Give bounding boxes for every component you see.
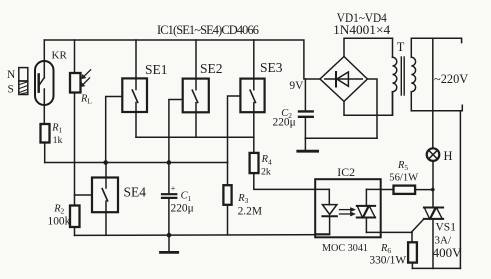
svg-text:330/1W: 330/1W (369, 254, 406, 266)
svg-text:+: + (171, 183, 176, 193)
svg-text:220μ: 220μ (273, 117, 296, 129)
svg-text:H: H (444, 149, 453, 163)
svg-text:T: T (397, 40, 405, 54)
svg-text:56/1W: 56/1W (389, 173, 418, 184)
svg-text:S: S (8, 84, 14, 96)
svg-text:100k: 100k (48, 216, 71, 228)
svg-text:KR: KR (52, 50, 68, 62)
svg-text:N: N (7, 69, 15, 81)
svg-text:IC2: IC2 (337, 165, 355, 179)
svg-text:VS1: VS1 (436, 221, 457, 233)
svg-text:1k: 1k (53, 135, 63, 146)
svg-text:~220V: ~220V (434, 72, 468, 86)
svg-text:2.2M: 2.2M (238, 205, 262, 217)
svg-text:IC1(SE1~SE4)CD4066: IC1(SE1~SE4)CD4066 (157, 23, 259, 37)
svg-text:1N4001×4: 1N4001×4 (333, 23, 390, 37)
svg-text:SE2: SE2 (200, 61, 223, 76)
svg-text:SE1: SE1 (145, 62, 168, 77)
svg-text:9V: 9V (289, 80, 304, 92)
svg-text:MOC 3041: MOC 3041 (322, 243, 368, 254)
svg-text:SE3: SE3 (260, 60, 283, 75)
svg-text:400V: 400V (433, 245, 463, 260)
svg-text:220μ: 220μ (171, 202, 194, 214)
svg-text:SE4: SE4 (124, 185, 147, 200)
svg-text:2k: 2k (261, 167, 271, 178)
